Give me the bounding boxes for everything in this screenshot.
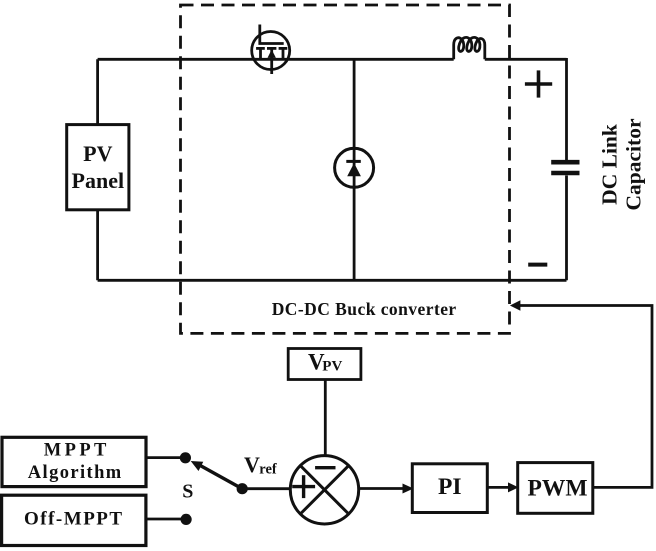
- switch S arm arrowhead: [191, 461, 204, 471]
- PV Panel box: [67, 125, 129, 210]
- feedback wire from PWM to converter: [518, 306, 652, 488]
- PI box: [412, 464, 487, 513]
- MOSFET Q1: [252, 25, 290, 75]
- plus terminal: [525, 70, 552, 97]
- svg-text:Capacitor: Capacitor: [622, 118, 646, 210]
- wire diode branch vertical: [353, 59, 356, 280]
- label Vref: [244, 452, 277, 478]
- VPV box: [288, 349, 361, 380]
- arrow summing junction to PI: [358, 487, 404, 490]
- svg-text:PV: PV: [322, 358, 342, 374]
- svg-text:S: S: [182, 481, 193, 503]
- summing minus sign: [315, 466, 335, 469]
- wire bottom horizontal: [98, 279, 567, 282]
- svg-text:PWM: PWM: [527, 476, 587, 502]
- wire VPV to summing junction: [324, 380, 327, 455]
- diode D1: [335, 148, 374, 187]
- svg-text:Algorithm: Algorithm: [28, 463, 123, 483]
- svg-text:ref: ref: [259, 462, 277, 478]
- feedback arrowhead: [510, 300, 521, 311]
- switch contact node (Off-MPPT): [181, 514, 192, 525]
- wire right vertical upper (to capacitor top plate): [565, 58, 568, 160]
- inductor L1: [454, 37, 485, 59]
- svg-text:Off-MPPT: Off-MPPT: [24, 509, 124, 530]
- capacitor C1 plates: [551, 162, 579, 173]
- wire top horizontal (drain side): [98, 58, 454, 61]
- wire PV panel bottom lead: [96, 209, 99, 281]
- svg-text:DC-DC Buck converter: DC-DC Buck converter: [272, 299, 457, 319]
- summing plus sign: [292, 475, 315, 498]
- svg-text:PI: PI: [438, 474, 462, 500]
- svg-text:MPPT: MPPT: [44, 441, 110, 461]
- switch S pole node: [237, 483, 248, 494]
- MPPT Algorithm box: [2, 437, 146, 486]
- switch S arm: [198, 464, 242, 488]
- wire MPPT Algorithm to switch contact: [146, 456, 185, 459]
- svg-text:PV: PV: [83, 141, 112, 166]
- arrow PI to PWM: [487, 486, 509, 489]
- wire switch pole to summing junction: [242, 487, 289, 490]
- Off-MPPT box: [2, 495, 146, 545]
- minus terminal: [528, 263, 547, 267]
- label DC Link Capacitor (rotated): [598, 118, 646, 210]
- wire PV panel top lead: [96, 59, 99, 125]
- summing junction: [290, 456, 358, 524]
- svg-text:V: V: [244, 452, 260, 477]
- wire inductor to right corner: [485, 58, 567, 61]
- wire right vertical lower (from capacitor bottom plate): [565, 176, 568, 281]
- dashed boundary DC-DC Buck converter: [181, 5, 510, 333]
- svg-text:DC Link: DC Link: [598, 124, 622, 205]
- svg-text:Panel: Panel: [72, 168, 125, 193]
- PWM box: [518, 463, 593, 514]
- switch contact node (MPPT): [180, 452, 191, 463]
- wire Off-MPPT to switch contact: [146, 518, 186, 521]
